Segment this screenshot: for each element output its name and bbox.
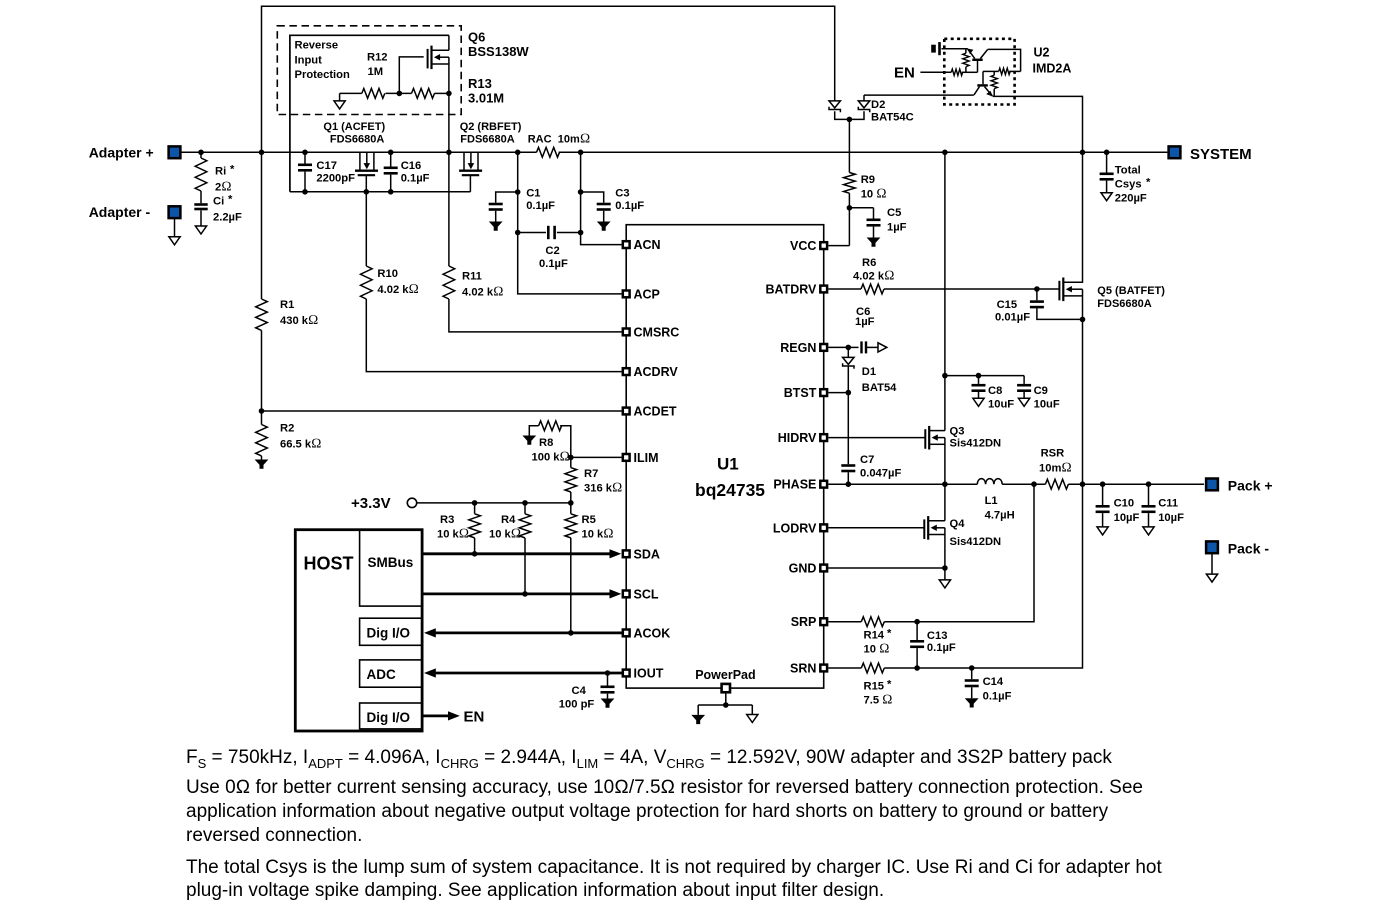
svg-text:SCL: SCL: [634, 587, 659, 601]
resistor (U2 base series, lower): [999, 68, 1011, 74]
svg-text:10uF: 10uF: [1034, 399, 1060, 411]
node VCC/C5: [847, 205, 853, 211]
svg-text:Q1 (ACFET): Q1 (ACFET): [323, 121, 385, 133]
resistor R14: [861, 617, 884, 627]
resistor R11: [443, 266, 455, 299]
svg-text:Adapter -: Adapter -: [89, 204, 151, 220]
svg-text:R15: R15: [864, 681, 885, 693]
svg-text:Input: Input: [295, 55, 323, 67]
svg-text:Csys: Csys: [1115, 179, 1142, 191]
svg-text:FDS6680A: FDS6680A: [1097, 298, 1151, 310]
U2 dotted box: [944, 39, 1014, 105]
HOST SMBus sub-box: [360, 530, 423, 606]
node +3.3V: [407, 498, 416, 507]
svg-text:10 kΩ: 10 kΩ: [489, 526, 521, 541]
svg-text:Q2 (RBFET): Q2 (RBFET): [460, 121, 522, 133]
svg-text:C14: C14: [983, 676, 1004, 688]
pin IOUT: [623, 670, 630, 677]
pin BTST: [820, 389, 827, 396]
pin ACDET: [623, 408, 630, 415]
svg-text:2200pF: 2200pF: [316, 173, 355, 185]
svg-text:Dig I/O: Dig I/O: [367, 710, 411, 725]
HOST Dig I/O sub-box 2: [360, 703, 423, 729]
resistor (U2 base-emitter, upper): [965, 49, 967, 54]
ground (open) under PowerPad right: [747, 715, 758, 723]
wire: Q6 source/R13 down to rail and on to R11: [448, 93, 450, 266]
capacitor C17: [304, 152, 306, 163]
svg-text:ACN: ACN: [634, 238, 661, 252]
svg-text:C10: C10: [1114, 498, 1135, 510]
wire: REGN line: [828, 346, 848, 348]
svg-text:Q3: Q3: [950, 426, 965, 438]
svg-text:SMBus: SMBus: [368, 555, 414, 570]
svg-text:1µF: 1µF: [887, 222, 907, 234]
svg-text:+3.3V: +3.3V: [351, 495, 391, 512]
wire: C8/C9 branch line: [945, 375, 1024, 377]
pin SCL: [623, 591, 630, 598]
svg-text:R5: R5: [582, 514, 596, 526]
capacitor C9: [1023, 376, 1025, 384]
svg-text:4.02 kΩ: 4.02 kΩ: [462, 284, 503, 299]
wire: upper collector to lower base resistor: [988, 49, 1021, 71]
svg-text:10µF: 10µF: [1158, 512, 1184, 524]
wire: D2 right anode to U2 lower collector: [864, 95, 974, 101]
resistor R9: [844, 173, 856, 194]
svg-text:10 kΩ: 10 kΩ: [582, 526, 614, 541]
capacitor C13: [916, 622, 918, 640]
transistor (U2 lower NPN): [977, 84, 988, 86]
svg-text:R4: R4: [501, 514, 516, 526]
transistor Q6 (BSS138W): [428, 35, 449, 93]
diode D2 BAT54C (right half): [858, 101, 869, 112]
svg-text:Sis412DN: Sis412DN: [950, 536, 1002, 548]
svg-text:0.01µF: 0.01µF: [995, 312, 1030, 324]
svg-text:IMD2A: IMD2A: [1033, 62, 1072, 76]
pin SRP: [820, 618, 827, 625]
svg-text:Pack +: Pack +: [1228, 478, 1273, 494]
ground (filled) under R2: [255, 460, 269, 469]
svg-text:BTST: BTST: [784, 386, 817, 400]
svg-text:Q5 (BATFET): Q5 (BATFET): [1097, 285, 1165, 297]
wire: U2 lower emitter to system node: [993, 96, 1083, 283]
capacitor C4: [605, 670, 611, 676]
svg-text:R3: R3: [440, 514, 454, 526]
svg-text:3.01M: 3.01M: [468, 91, 504, 106]
svg-text:C11: C11: [1158, 498, 1178, 510]
svg-text:ACDRV: ACDRV: [634, 365, 679, 379]
svg-text:BAT54C: BAT54C: [871, 111, 914, 123]
capacitor C6: [848, 346, 858, 348]
svg-text:D1: D1: [862, 366, 876, 378]
svg-text:LODRV: LODRV: [773, 521, 817, 535]
wire: VCC pin: [828, 245, 849, 247]
wire: HIDRV to Q3 gate: [828, 437, 925, 439]
svg-text:*: *: [887, 679, 892, 691]
svg-text:R11: R11: [462, 271, 482, 283]
transistor Q4 Sis412DN: [924, 516, 937, 540]
resistor (U2 base series, upper): [951, 69, 963, 75]
capacitor C15: [1034, 286, 1040, 292]
wire: Pack- to ground: [1211, 554, 1213, 574]
svg-text:0.047µF: 0.047µF: [860, 468, 901, 480]
svg-text:0.1µF: 0.1µF: [401, 173, 430, 185]
svg-text:D2: D2: [871, 99, 885, 111]
svg-text:4.02 kΩ: 4.02 kΩ: [853, 268, 894, 283]
pin ACDRV: [623, 368, 630, 375]
svg-text:10µF: 10µF: [1114, 512, 1140, 524]
pin SRN: [820, 665, 827, 672]
svg-text:Ci: Ci: [213, 196, 224, 208]
HOST ADC sub-box: [360, 660, 423, 687]
svg-text:R9: R9: [861, 174, 875, 186]
svg-text:C2: C2: [545, 245, 559, 257]
transistor Q2 (RBFET) FDS6680A: [459, 152, 482, 175]
svg-text:220µF: 220µF: [1115, 193, 1147, 205]
dashed box: Reverse Input Protection: [277, 26, 461, 115]
svg-text:10 kΩ: 10 kΩ: [437, 526, 469, 541]
svg-text:PHASE: PHASE: [773, 478, 816, 492]
resistor R6: [828, 288, 861, 290]
node/wire: C3-ACN vertical: [581, 152, 622, 244]
inductor L1: [977, 479, 1002, 485]
svg-text:C4: C4: [572, 685, 587, 697]
wire: top rail from adapter node to D2: [262, 6, 835, 152]
resistor R1: [261, 152, 263, 299]
terminal SYSTEM: [1169, 146, 1181, 158]
terminal Pack+: [1206, 479, 1218, 491]
resistor R3: [474, 503, 476, 514]
wire: +3.3V rail: [417, 502, 571, 504]
svg-text:R1: R1: [280, 299, 294, 311]
svg-text:ACP: ACP: [634, 287, 660, 301]
svg-text:2.2µF: 2.2µF: [213, 211, 242, 223]
svg-text:BATDRV: BATDRV: [765, 283, 817, 297]
svg-text:7.5 Ω: 7.5 Ω: [864, 692, 893, 707]
wire: D2 common cathode: [835, 111, 864, 119]
svg-text:10 Ω: 10 Ω: [861, 186, 887, 201]
svg-text:C3: C3: [615, 188, 629, 200]
capacitor C10: [1100, 481, 1106, 487]
wire: SDA bus with arrow: [422, 552, 611, 555]
resistor R5: [570, 503, 572, 514]
svg-text:C17: C17: [316, 160, 337, 172]
svg-text:C16: C16: [401, 160, 422, 172]
svg-text:0.1µF: 0.1µF: [927, 642, 956, 654]
svg-text:66.5 kΩ: 66.5 kΩ: [280, 436, 321, 451]
svg-text:Reverse: Reverse: [295, 39, 339, 51]
capacitor C7: [847, 393, 849, 465]
terminal Adapter+: [169, 146, 181, 158]
pin HIDRV: [820, 434, 827, 441]
svg-text:Ri: Ri: [215, 166, 226, 178]
ground (filled) under PowerPad left: [691, 715, 705, 724]
wire: BTST line: [828, 392, 848, 394]
capacitor C11: [1146, 481, 1152, 487]
svg-text:2Ω: 2Ω: [215, 179, 232, 194]
note: paragraph about Csys: [186, 857, 1162, 879]
wire: ACOK bus with arrow to Dig I/O: [432, 632, 622, 635]
capacitor C3: [581, 192, 604, 203]
pin LODRV: [820, 524, 827, 531]
wire: Adapter- to ground: [174, 219, 176, 237]
svg-text:ILIM: ILIM: [634, 451, 659, 465]
capacitor Ci: [200, 191, 202, 203]
svg-text:C1: C1: [526, 188, 540, 200]
svg-text:10uF: 10uF: [988, 399, 1014, 411]
svg-text:0.1µF: 0.1µF: [983, 691, 1012, 703]
svg-text:FDS6680A: FDS6680A: [460, 134, 514, 146]
tap symbol at U2 top-left: [938, 42, 941, 55]
capacitor C1: [496, 192, 518, 203]
svg-text:0.1µF: 0.1µF: [615, 200, 644, 212]
ground (open) at Q4 source: [939, 580, 950, 588]
resistor RAC: [537, 147, 560, 157]
pin SDA: [623, 550, 630, 557]
capacitor C16: [390, 152, 392, 166]
svg-text:0.1µF: 0.1µF: [526, 200, 555, 212]
pin CMSRC: [623, 329, 630, 336]
svg-text:SYSTEM: SYSTEM: [1190, 146, 1252, 163]
wire: SCL bus with arrow: [422, 593, 611, 596]
resistor R7: [570, 457, 572, 467]
capacitor Total Csys: [1104, 150, 1110, 156]
svg-text:bq24735: bq24735: [695, 480, 765, 500]
pin PHASE: [820, 481, 827, 488]
pin VCC: [820, 242, 827, 249]
svg-text:*: *: [228, 194, 233, 206]
wire: Q2 gate lead to bus end: [469, 175, 471, 192]
svg-text:C9: C9: [1034, 385, 1048, 397]
svg-text:EN: EN: [894, 64, 915, 81]
svg-text:4.02 kΩ: 4.02 kΩ: [377, 281, 418, 296]
svg-text:C5: C5: [887, 207, 901, 219]
pin ACOK: [623, 630, 630, 637]
wire: main adapter input rail: [181, 151, 536, 153]
svg-text:FDS6680A: FDS6680A: [330, 134, 384, 146]
svg-text:C15: C15: [997, 299, 1018, 311]
wire: SRP line: [828, 621, 861, 623]
resistor RSR: [1045, 479, 1068, 489]
svg-text:*: *: [230, 164, 235, 176]
wire: D2 cathode down to R9 (crosses system rail): [848, 119, 850, 172]
wire: IOUT bus with arrow to ADC: [432, 672, 622, 675]
transistor Q3 Sis412DN: [925, 426, 938, 450]
svg-text:0.1µF: 0.1µF: [539, 258, 568, 270]
svg-text:U2: U2: [1034, 46, 1050, 60]
svg-text:REGN: REGN: [780, 341, 816, 355]
wire: gate bus along bottom (C17/C16 bottoms, Q1/Q2 gates): [290, 191, 471, 193]
capacitor C5: [849, 207, 873, 209]
pin BATDRV: [820, 286, 827, 293]
svg-text:1µF: 1µF: [855, 316, 875, 328]
wire: GND line: [828, 567, 945, 569]
svg-text:10mΩ: 10mΩ: [1039, 460, 1072, 475]
wire: ACDET line: [262, 410, 622, 412]
svg-text:10mΩ: 10mΩ: [558, 131, 590, 146]
svg-text:Q4: Q4: [950, 518, 966, 530]
svg-text:ACDET: ACDET: [634, 405, 677, 419]
resistor R8: [539, 421, 562, 431]
svg-text:Pack -: Pack -: [1228, 541, 1270, 557]
wire: EN input line with series resistor into U2: [920, 71, 951, 73]
wire: system rail from RAC to SYSTEM terminal: [559, 151, 1168, 153]
wire: x=944.9 vertical (system rail to Q3 drain): [944, 152, 946, 430]
svg-text:HIDRV: HIDRV: [778, 431, 817, 445]
resistor R4: [524, 503, 526, 514]
resistor R2: [261, 411, 263, 425]
wire: gate-drive net top edge and left edge of inner box: [290, 35, 449, 192]
wire: ILIM line: [571, 456, 622, 458]
svg-text:ACOK: ACOK: [634, 626, 671, 640]
svg-text:Q6: Q6: [468, 30, 485, 45]
svg-text:VCC: VCC: [790, 239, 816, 253]
resistor R12: [362, 89, 385, 99]
diode D1 BAT54: [847, 347, 849, 357]
note: paragraph about sense resistors: [186, 777, 1143, 799]
svg-text:PowerPad: PowerPad: [695, 668, 755, 682]
op-amp/IC U1 bq24735 box: [626, 225, 824, 688]
terminal Adapter-: [169, 206, 181, 218]
svg-text:Adapter +: Adapter +: [89, 144, 154, 160]
wire: PowerPad to grounds: [698, 693, 752, 715]
wire: upper emitter line to tap: [942, 48, 968, 50]
svg-text:100 pF: 100 pF: [559, 699, 595, 711]
wire: SRN line: [828, 667, 861, 669]
svg-text:10 Ω: 10 Ω: [864, 641, 890, 656]
wire+ground (open) at R12 left: [339, 93, 341, 101]
resistor R15: [861, 663, 884, 673]
svg-text:C7: C7: [860, 454, 874, 466]
svg-text:*: *: [1146, 177, 1151, 189]
svg-text:RAC: RAC: [528, 134, 552, 146]
capacitor C2: [518, 232, 546, 234]
pin ACN: [623, 241, 630, 248]
svg-text:IOUT: IOUT: [634, 667, 664, 681]
transistor Q5 (BATFET) FDS6680A: [1059, 278, 1072, 302]
svg-text:ADC: ADC: [367, 667, 396, 682]
pin ILIM: [623, 454, 630, 461]
svg-text:BAT54: BAT54: [862, 382, 897, 394]
svg-text:R13: R13: [468, 76, 492, 91]
HOST Dig I/O sub-box 1: [360, 618, 423, 645]
wire: Q1 gate lead to bus: [365, 175, 367, 192]
resistor Ri: [195, 158, 207, 191]
pin ACP: [623, 291, 630, 298]
svg-text:1M: 1M: [368, 66, 384, 78]
pin GND: [820, 565, 827, 572]
svg-text:Protection: Protection: [295, 69, 350, 81]
svg-text:GND: GND: [789, 562, 817, 576]
node/wire: C1-C2-ACP vertical: [518, 152, 622, 294]
wire: LODRV to Q4 gate: [828, 527, 924, 529]
svg-text:L1: L1: [985, 495, 998, 507]
resistor R10: [361, 266, 373, 299]
svg-text:R10: R10: [377, 268, 398, 280]
transistor Q1 (ACFET) FDS6680A: [355, 152, 378, 175]
svg-text:EN: EN: [464, 708, 485, 725]
svg-text:SRP: SRP: [791, 615, 817, 629]
node: R12/R13 junction to Q6 gate: [397, 91, 403, 97]
svg-text:U1: U1: [717, 455, 739, 474]
svg-text:R2: R2: [280, 423, 294, 435]
svg-text:SDA: SDA: [634, 547, 660, 561]
svg-text:CMSRC: CMSRC: [634, 325, 680, 339]
resistor (U2 base-emitter, lower): [993, 71, 995, 75]
svg-text:100 kΩ: 100 kΩ: [532, 449, 570, 464]
wire: R10 to ACDRV: [366, 299, 621, 372]
svg-text:Dig I/O: Dig I/O: [367, 625, 411, 640]
wire: PHASE line: [828, 483, 977, 485]
svg-text:Sis412DN: Sis412DN: [950, 438, 1002, 450]
svg-text:4.7µH: 4.7µH: [985, 510, 1015, 522]
diode D2 BAT54C (left half): [829, 101, 840, 112]
svg-text:SRN: SRN: [790, 662, 816, 676]
ground (open) under Adapter-: [169, 237, 180, 245]
terminal Pack-: [1206, 541, 1218, 553]
svg-text:R6: R6: [862, 257, 876, 269]
svg-text:BSS138W: BSS138W: [468, 44, 529, 59]
capacitor C8: [978, 376, 980, 384]
transistor (U2 upper NPN): [972, 59, 982, 61]
wire: R11 to CMSRC: [449, 299, 622, 332]
svg-text:HOST: HOST: [304, 554, 354, 574]
svg-text:C13: C13: [927, 630, 948, 642]
svg-text:RSR: RSR: [1041, 448, 1065, 460]
svg-text:316 kΩ: 316 kΩ: [584, 480, 622, 495]
svg-text:Total: Total: [1115, 165, 1141, 177]
ground (open) under Ci: [195, 226, 206, 234]
svg-text:430 kΩ: 430 kΩ: [280, 312, 318, 327]
svg-text:R7: R7: [584, 468, 598, 480]
HOST box: [295, 530, 422, 731]
note: parameters line: [186, 747, 1112, 771]
wire: EN output with arrow: [422, 715, 449, 718]
svg-text:R12: R12: [367, 52, 388, 64]
resistor R13: [412, 89, 435, 99]
svg-text:*: *: [887, 628, 892, 640]
svg-text:R8: R8: [539, 437, 553, 449]
pin PowerPad: [722, 684, 730, 692]
svg-text:C8: C8: [988, 385, 1002, 397]
pin REGN: [820, 344, 827, 351]
capacitor C14: [971, 668, 973, 679]
